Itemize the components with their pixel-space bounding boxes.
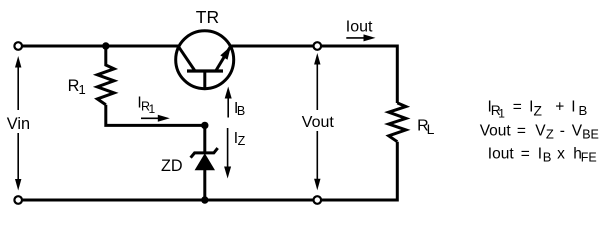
Vin arrowhead down [15,179,21,191]
svg-text:1: 1 [149,102,156,116]
Vin dimension arrow lower segment [17,133,19,184]
current arrow IB head up [225,87,232,99]
Vin arrowhead up [15,56,21,68]
current arrow IZ head down [224,167,231,179]
Vout arrowhead up [314,53,320,65]
svg-text:1: 1 [79,82,86,97]
current arrow IZ line [227,128,229,172]
current arrow IB line [227,92,229,118]
svg-text:Z: Z [238,134,246,148]
transistor TR collector lead diagonal [178,46,194,70]
terminal circle input bottom [14,196,22,204]
transistor TR body circle [176,31,234,89]
wire zener anode down to bottom rail [203,169,206,200]
svg-text:Iout: Iout [346,18,373,35]
zener diode ZD cathode bar with bent ends [191,148,218,158]
zener diode ZD anode triangle [195,153,215,170]
svg-text:Iout=IBxhFE: Iout=IBxhFE [488,145,597,164]
current arrow IR1 line [141,117,161,119]
terminal circle input top [14,42,22,50]
Vin dimension arrow upper segment [17,62,19,110]
svg-text:ZD: ZD [161,157,183,175]
resistor R1 top lead and zigzag [97,46,114,105]
wire R1 bottom lead to base node [106,105,205,126]
current arrow Iout line [346,37,366,39]
transistor TR emitter lead diagonal [216,46,231,70]
transistor TR base lead from bar down [203,71,206,89]
Vout dimension arrow lower segment [316,131,318,184]
wire bottom rail from RL bottom lead to input bottom terminal [23,142,398,200]
wire top rail from input terminal to right corner and down to RL top [23,46,398,103]
transistor TR base bar [187,69,223,72]
node junction dot at base node [201,122,208,129]
terminal circle output bottom [314,196,322,204]
Vout dimension arrow upper segment [316,59,318,110]
node junction dot at R1 top on rail [102,42,109,49]
svg-text:Vout=VZ-VBE: Vout=VZ-VBE [480,122,599,141]
svg-text:Vin: Vin [7,115,30,133]
node junction dot at zener bottom on rail [201,196,208,203]
svg-text:TR: TR [196,7,219,27]
svg-text:L: L [427,121,435,137]
transistor TR emitter arrowhead [220,46,231,60]
terminal circle output top [314,42,322,50]
svg-text:B: B [237,104,245,118]
wire base node down to zener cathode [203,125,206,152]
resistor RL zigzag [389,103,406,142]
svg-text:IR1=IZ+IB: IR1=IZ+IB [488,99,588,121]
current arrow Iout head right [364,34,376,41]
current arrow IR1 head right [158,115,170,122]
Vout arrowhead down [314,179,320,191]
svg-text:Vout: Vout [302,114,335,131]
